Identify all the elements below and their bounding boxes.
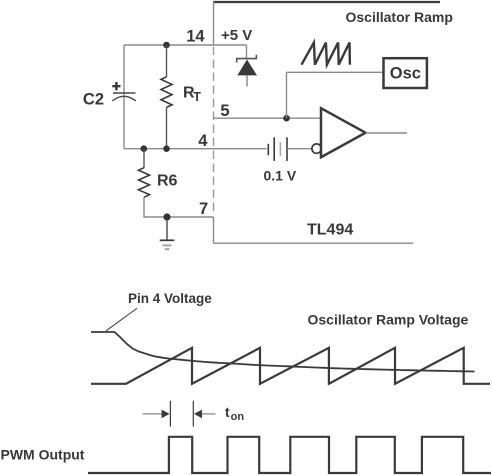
- wire: zener anode stub down: [246, 75, 248, 86]
- junction dot pin4/R6: [141, 145, 148, 152]
- resistor R6 zigzag: [139, 168, 150, 198]
- svg-text:T: T: [193, 90, 201, 104]
- svg-text:Osc: Osc: [390, 65, 421, 83]
- wire: RT top stub: [166, 45, 168, 77]
- TL494 IC box bottom edge: [214, 242, 414, 244]
- junction dot pin4/RT: [163, 145, 170, 152]
- svg-text:Oscillator Ramp: Oscillator Ramp: [346, 9, 453, 25]
- Osc block: [384, 58, 427, 88]
- zener diode D1 triangle (anode, pointing up): [237, 60, 257, 76]
- comparator U1 triangle: [321, 108, 366, 157]
- TL494 IC box top edge: [213, 1, 440, 3]
- pin 4 voltage decay curve: [91, 332, 475, 372]
- ton right arrow: [194, 410, 215, 419]
- svg-text:TL494: TL494: [307, 221, 353, 238]
- svg-text:PWM Output: PWM Output: [1, 446, 85, 462]
- battery B1 tall plate 1: [273, 137, 275, 161]
- ground stub wire: [166, 217, 168, 240]
- wire: R6 top stub: [143, 149, 145, 168]
- comparator inverting input bubble: [312, 144, 321, 153]
- capacitor C2 curved bottom plate: [112, 96, 136, 101]
- ton right tick: [192, 401, 194, 427]
- junction dot pin5/ramp feed: [283, 115, 290, 122]
- wire: RT bottom stub: [166, 107, 168, 148]
- svg-text:4: 4: [198, 132, 208, 150]
- ton left arrow: [143, 410, 170, 419]
- svg-text:14: 14: [186, 27, 205, 45]
- svg-text:t: t: [225, 404, 230, 420]
- junction dot pin7/ground: [163, 213, 170, 220]
- wire: ramp feed vertical: [286, 72, 288, 118]
- svg-text:on: on: [231, 411, 245, 423]
- resistor RT zigzag: [161, 77, 172, 108]
- wire: R6 bottom to pin 7 corner: [144, 197, 214, 217]
- wire: pin 5 net to comparator: [214, 117, 322, 119]
- TL494 IC box left edge solid top segment: [213, 1, 215, 45]
- pointer line from Pin 4 Voltage label: [106, 308, 137, 331]
- ground bar 2: [162, 244, 171, 246]
- ground bar 1: [160, 239, 175, 241]
- svg-text:C2: C2: [83, 91, 104, 109]
- wire: +5V down to zener cathode: [246, 45, 248, 59]
- sawtooth waveform icon: [302, 43, 350, 65]
- wire: C2 left vertical: [123, 45, 125, 149]
- oscillator ramp sawtooth waveform: [91, 348, 490, 384]
- wire: battery to comparator bubble: [287, 148, 312, 150]
- PWM output waveform: [88, 437, 491, 473]
- junction dot on pin 14 wire at RT top: [163, 42, 170, 49]
- svg-text:0.1 V: 0.1 V: [264, 168, 297, 184]
- battery B1 tall plate 2: [286, 137, 288, 161]
- label: RT: [183, 85, 201, 105]
- battery B1 grey middle plate: [279, 142, 281, 156]
- svg-text:+5 V: +5 V: [221, 27, 252, 44]
- TL494 IC box left edge dashed segment: [213, 47, 215, 216]
- svg-text:R6: R6: [157, 173, 178, 190]
- zener diode D1 cathode bar: [237, 55, 257, 63]
- TL494 IC box left edge solid bottom segment: [213, 217, 215, 243]
- capacitor C2 top plate: [113, 92, 136, 94]
- capacitor C2 plus sign: [112, 82, 120, 90]
- label: t_on: [225, 404, 244, 423]
- wire: pin 14 net (C2 top to +5V corner): [124, 44, 247, 46]
- ton left tick: [169, 401, 171, 427]
- svg-text:Oscillator Ramp Voltage: Oscillator Ramp Voltage: [308, 312, 469, 328]
- ground bar 3: [165, 248, 170, 250]
- wire: pin 4 net horizontal: [124, 148, 267, 150]
- wire: ramp feed horizontal to Osc box: [287, 71, 384, 73]
- svg-text:Pin 4 Voltage: Pin 4 Voltage: [128, 291, 212, 306]
- battery B1 short plate: [267, 144, 269, 155]
- wire: comparator output: [366, 132, 408, 134]
- svg-text:7: 7: [199, 200, 208, 218]
